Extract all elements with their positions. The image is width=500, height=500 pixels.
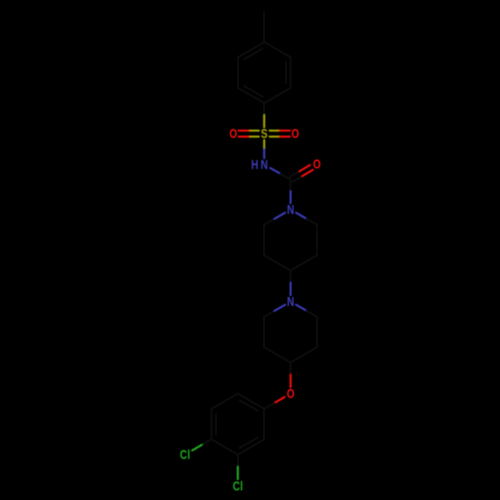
bond C(carbonyl)-N1 piperidine xyxy=(290,180,292,192)
bond C(aryl)-S xyxy=(263,103,265,115)
C=O double bond of urea xyxy=(292,176,302,182)
ring B aromatic inner line C6=C1 xyxy=(240,400,258,410)
piperidine1 bond N1-C2 xyxy=(296,213,307,219)
svg-text:C: C xyxy=(233,481,240,494)
svg-text:O: O xyxy=(229,128,237,141)
ring B aromatic inner line C4=C5 xyxy=(215,414,217,435)
svg-text:C: C xyxy=(180,449,187,462)
bond S-N(H) xyxy=(263,140,265,149)
dichlorophenyl bond C5-C6 xyxy=(211,394,237,409)
piperidine1 bond C2-C3 xyxy=(316,225,318,255)
benzene ring A bond C6-C1 xyxy=(238,88,264,103)
bond C4(pip2)-O ether xyxy=(290,363,292,375)
piperidine2 bond C2-C3 xyxy=(316,317,318,347)
dichlorophenyl bond C1-C2 xyxy=(263,409,265,440)
benzene ring A bond C3-C4 xyxy=(264,42,290,57)
svg-text:S: S xyxy=(261,128,268,141)
bond CH3-C(ring) of tosyl methyl xyxy=(263,12,265,42)
benzene ring A bond C4-C5 xyxy=(238,42,264,57)
piperidine2 bond C4-C5 xyxy=(264,347,290,362)
benzene ring A bond C5-C6 xyxy=(237,57,239,88)
ring A aromatic inner line C6=C1 xyxy=(244,86,262,96)
svg-text:N: N xyxy=(287,204,294,217)
svg-text:O: O xyxy=(287,388,295,401)
dichlorophenyl bond C4-C5 xyxy=(210,409,212,440)
svg-text:N: N xyxy=(287,296,294,309)
bond C3(aryl)-Cl xyxy=(237,455,239,467)
svg-text:O: O xyxy=(313,159,321,172)
piperidine2 bond C6-N2 xyxy=(264,311,274,317)
ring A aromatic inner line C4=C5 xyxy=(244,49,262,59)
ring A aromatic inner line C2=C3 xyxy=(285,62,287,83)
svg-text:H: H xyxy=(251,159,258,172)
piperidine1 bond C4-C5 xyxy=(264,255,290,270)
dichlorophenyl bond C3-C4 xyxy=(211,439,237,454)
piperidine1 bond C3-C4 xyxy=(291,255,317,270)
dichlorophenyl bond C6-C1 xyxy=(238,394,264,409)
dichlorophenyl bond C2-C3 xyxy=(238,439,264,454)
svg-text:l: l xyxy=(187,449,190,462)
S=O double bond right xyxy=(270,136,280,138)
piperidine2 bond C5-C6 xyxy=(263,317,265,347)
benzene ring A bond C1-C2 xyxy=(264,88,290,103)
piperidine1 bond C5-C6 xyxy=(263,225,265,255)
bond C4(aryl)-Cl xyxy=(202,439,212,445)
svg-text:l: l xyxy=(240,481,243,494)
bond O(ether)-C1 dichlorophenyl xyxy=(274,397,284,403)
piperidine2 bond C3-C4 xyxy=(291,347,317,362)
benzene ring A bond C2-C3 xyxy=(290,57,292,88)
svg-text:O: O xyxy=(291,128,299,141)
bond C4(pip1)-N2(pip2) xyxy=(290,271,292,283)
bond N(H)-C carbonyl xyxy=(270,168,280,174)
piperidine2 bond N2-C2 xyxy=(296,305,307,311)
svg-text:N: N xyxy=(261,159,268,172)
piperidine1 bond C6-N1 xyxy=(264,219,274,225)
S=O double bond left xyxy=(249,130,259,132)
ring B aromatic inner line C2=C3 xyxy=(240,438,258,448)
